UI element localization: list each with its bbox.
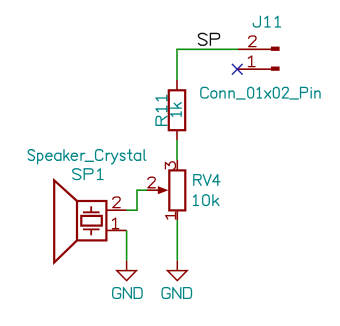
connector J11 pin 1	[238, 67, 280, 71]
ground symbol right	[168, 261, 188, 281]
label GND left	[113, 288, 142, 299]
wire RV4 pin 1 to GND	[176, 220, 178, 261]
label GND right	[162, 288, 191, 299]
crystal inside speaker	[90, 206, 92, 212]
pin number 2 of J11	[249, 36, 256, 47]
pin number 3 of RV4	[165, 162, 175, 169]
reference J11	[253, 16, 280, 27]
value Speaker_Crystal	[28, 150, 145, 164]
speaker SP1 body	[54, 180, 126, 262]
wire R11 bottom to RV4 pin 3	[176, 140, 178, 160]
value Conn_01x02_Pin	[201, 87, 320, 99]
pin number 1 of RV4	[166, 212, 176, 219]
reference RV4	[194, 175, 220, 186]
pin 2 of SP1	[106, 209, 126, 211]
ground symbol left	[117, 261, 137, 281]
pin number 1 of J11	[248, 56, 255, 67]
speaker cone	[54, 180, 77, 262]
connector J11 pin 2	[238, 47, 280, 51]
wire SP1 pin 2 to RV4 pin 2	[127, 190, 147, 210]
pin number 2 of RV4	[148, 177, 155, 188]
wire SP1 pin 1 down to GND	[126, 230, 128, 260]
wire SP net from R11 top to J11 pin 2	[177, 49, 238, 80]
pin 1 of SP1	[106, 229, 126, 231]
value 10k	[194, 195, 220, 206]
no-connect flag on J11 pin 1	[232, 64, 243, 75]
reference SP1	[73, 169, 103, 180]
pin number 1 of SP1	[113, 218, 119, 229]
node SP net label	[199, 33, 220, 45]
pin number 2 of SP1	[113, 197, 120, 208]
potentiometer RV4	[147, 160, 185, 220]
reference R11	[156, 95, 167, 125]
value 1k	[171, 103, 182, 117]
resistor R11	[169, 80, 185, 140]
